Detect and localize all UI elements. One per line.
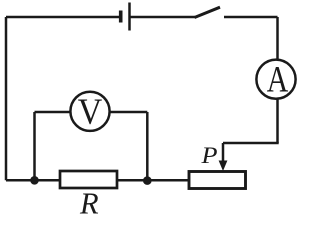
switch S (open lever) bbox=[195, 7, 221, 17]
svg-text:V: V bbox=[78, 92, 103, 133]
svg-text:A: A bbox=[267, 60, 289, 101]
resistor R (box) bbox=[60, 171, 117, 188]
wire bottom: resistor to rheostat bbox=[117, 179, 189, 182]
rheostat P (box) bbox=[189, 172, 246, 189]
battery cell: long (positive) plate bbox=[128, 3, 131, 31]
wire battery to switch bbox=[130, 16, 196, 19]
slider arrow shaft bbox=[222, 143, 225, 162]
svg-text:R: R bbox=[79, 187, 99, 219]
slider arrowhead bbox=[219, 161, 228, 172]
junction node left bbox=[30, 176, 39, 185]
wire left side bbox=[5, 17, 8, 180]
wire right side down to ammeter bbox=[276, 17, 279, 60]
wire voltmeter right lead bbox=[110, 111, 148, 114]
junction node right bbox=[143, 176, 152, 185]
wire ammeter down to corner bbox=[276, 100, 279, 144]
wire top-left segment bbox=[6, 16, 121, 19]
wire voltmeter right drop bbox=[146, 112, 149, 180]
wire corner to slider bbox=[223, 142, 279, 145]
voltmeter V (circle) bbox=[70, 92, 109, 131]
battery cell: short (negative) plate bbox=[119, 11, 123, 23]
wire switch to top-right corner bbox=[224, 16, 278, 19]
ammeter A (circle) bbox=[256, 60, 295, 99]
wire voltmeter left lead bbox=[35, 111, 71, 114]
wire voltmeter left drop bbox=[33, 112, 36, 180]
svg-text:P: P bbox=[200, 143, 217, 169]
wire bottom-left segment bbox=[6, 179, 60, 182]
